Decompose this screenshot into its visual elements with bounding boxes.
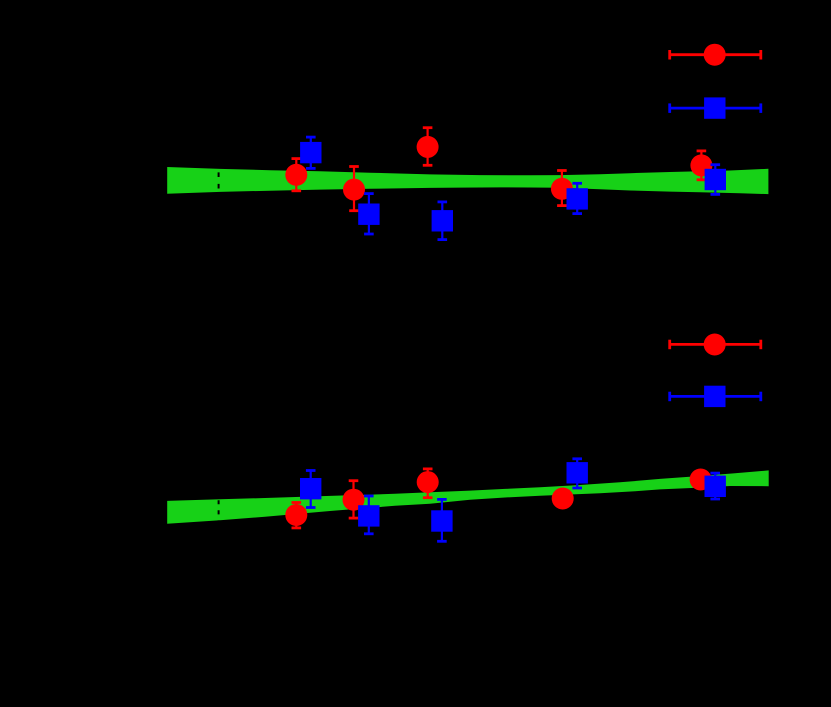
legend panel 1 blue entry xyxy=(670,97,761,118)
legend panel 2 blue entry xyxy=(670,386,761,407)
red point 3 panel 2 xyxy=(417,469,439,498)
red point 2 panel 1 xyxy=(343,167,365,211)
red series panel 1 xyxy=(285,128,712,211)
blue point 1 panel 1 xyxy=(300,137,321,168)
red point 4 panel 2 xyxy=(552,488,574,510)
blue point 3 panel 1 xyxy=(432,202,453,240)
blue point 1 panel 2 xyxy=(300,471,321,508)
red point 2 panel 2 xyxy=(343,481,365,518)
red point 1 panel 2 xyxy=(285,503,307,528)
blue series panel 2 xyxy=(300,459,726,542)
blue point 4 panel 2 xyxy=(567,459,588,488)
dashed vertical line panel 1 xyxy=(218,149,220,212)
green fit band panel 1 xyxy=(167,167,768,194)
red point 3 panel 1 xyxy=(417,128,439,166)
blue point 5 panel 1 xyxy=(705,165,726,195)
dashed vertical line panel 2 xyxy=(218,490,220,540)
blue series panel 1 xyxy=(300,137,726,240)
blue point 2 panel 2 xyxy=(358,496,379,534)
red series panel 2 xyxy=(285,469,711,528)
blue point 4 panel 1 xyxy=(567,183,588,213)
green fit band panel 2 xyxy=(167,470,769,523)
red point 5 panel 2 xyxy=(690,469,712,491)
red point 5 panel 1 xyxy=(690,151,712,180)
legend panel 1 red entry xyxy=(670,44,761,66)
red point 4 panel 1 xyxy=(551,171,573,206)
red point 1 panel 1 xyxy=(285,159,307,191)
blue point 2 panel 1 xyxy=(358,194,379,234)
legend panel 2 red entry xyxy=(670,334,761,356)
blue point 3 panel 2 xyxy=(431,499,452,541)
blue point 5 panel 2 xyxy=(705,473,726,499)
